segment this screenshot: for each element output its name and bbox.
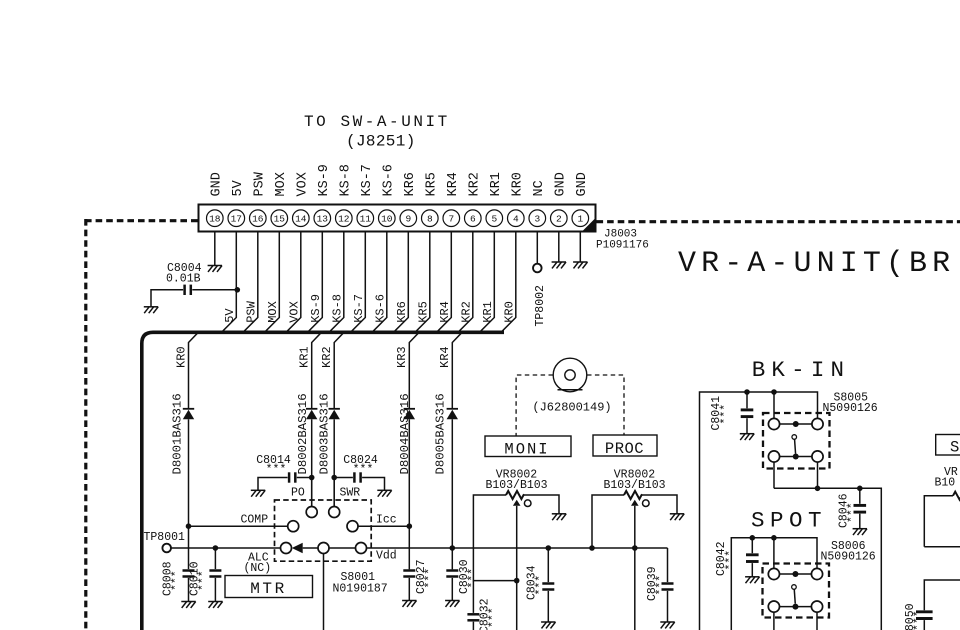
svg-text:KR0: KR0 bbox=[511, 172, 526, 196]
svg-text:14: 14 bbox=[295, 214, 307, 225]
pot wiper arrow bbox=[631, 500, 639, 506]
pin 11 (KS-7) bbox=[357, 210, 374, 227]
wire pin3 NC to TP8002 bbox=[536, 232, 538, 264]
svg-text:KR0: KR0 bbox=[174, 346, 188, 368]
wire S8005 bottom-left down bbox=[773, 462, 775, 488]
pin 6 (KR2) bbox=[465, 210, 482, 227]
ground (pin 2) bbox=[552, 262, 566, 268]
svg-text:16: 16 bbox=[252, 214, 264, 225]
pin 3 (NC) bbox=[529, 210, 546, 227]
node COMP/KR0/C8008 bbox=[186, 523, 192, 529]
wire BK-IN bottom rail bbox=[774, 488, 881, 630]
pot adjust circle bbox=[524, 500, 531, 507]
J8003 ref label bbox=[596, 229, 649, 252]
S8001 pin ALC bbox=[281, 543, 292, 554]
wire pin 9 (KR6) to bus bbox=[394, 232, 409, 333]
svg-text:COMP: COMP bbox=[241, 514, 269, 527]
svg-text:15: 15 bbox=[274, 214, 286, 225]
node Vdd/KR4/C8030 bbox=[450, 545, 456, 551]
svg-text:***: *** bbox=[424, 568, 437, 589]
svg-text:***: *** bbox=[913, 610, 926, 630]
S8005 ref label bbox=[823, 392, 878, 416]
svg-text:KS-7: KS-7 bbox=[352, 294, 366, 323]
svg-text:8: 8 bbox=[427, 214, 433, 225]
wire COMP line bbox=[189, 525, 288, 527]
wire SPOT feed bbox=[731, 538, 817, 630]
wire S8006 bottom-left down bbox=[773, 612, 775, 630]
test point TP8002 bbox=[533, 264, 547, 327]
svg-text:NC: NC bbox=[532, 180, 547, 196]
capacitor C8004 0.01B bbox=[151, 262, 237, 307]
VR8002 value labels bbox=[603, 469, 665, 493]
node C8034 bbox=[546, 545, 552, 551]
svg-text:KS-8: KS-8 bbox=[339, 164, 354, 196]
svg-text:7: 7 bbox=[448, 214, 454, 225]
pin 17 (5V) bbox=[228, 210, 245, 227]
svg-text:B103/B103: B103/B103 bbox=[485, 479, 547, 492]
svg-text:KR6: KR6 bbox=[403, 172, 418, 196]
rotary switch S8001 dashed outline bbox=[275, 500, 372, 561]
S8006 bottom-right contact bbox=[811, 601, 822, 612]
pin 9 (KR6) bbox=[400, 210, 417, 227]
ground (C8042) bbox=[745, 577, 759, 583]
svg-text:***: *** bbox=[266, 464, 287, 477]
svg-text:5: 5 bbox=[491, 214, 497, 225]
svg-text:(J62800149): (J62800149) bbox=[532, 401, 611, 415]
wire bus to KR0 drop bbox=[189, 333, 198, 409]
svg-text:KS-6: KS-6 bbox=[382, 164, 397, 196]
S8005 bottom node bbox=[793, 454, 799, 460]
wire bus to KR4 drop bbox=[452, 333, 461, 409]
wire common to Vdd pin bbox=[329, 547, 356, 549]
wire pin 8 (KR5) to bus bbox=[415, 232, 430, 333]
svg-text:KS-8: KS-8 bbox=[330, 294, 344, 323]
svg-text:KR4: KR4 bbox=[438, 301, 452, 323]
test point TP8001 bbox=[144, 531, 186, 552]
svg-text:KR5: KR5 bbox=[416, 301, 430, 323]
svg-text:MONI: MONI bbox=[504, 441, 549, 459]
svg-text:GND: GND bbox=[575, 172, 590, 196]
svg-text:9: 9 bbox=[405, 214, 411, 225]
svg-text:KR0: KR0 bbox=[502, 301, 516, 323]
wire pin 12 (KS-8) to bus bbox=[329, 232, 344, 333]
S8006 top node bbox=[792, 571, 798, 577]
wire KR1 diode to PO bbox=[311, 419, 313, 506]
ground (C8010) bbox=[208, 602, 222, 608]
svg-text:***: *** bbox=[720, 404, 733, 425]
ground (C8041) bbox=[740, 434, 754, 440]
pin 4 (KR0) bbox=[508, 210, 525, 227]
svg-text:TP8002: TP8002 bbox=[534, 285, 547, 327]
S8006 top bar bbox=[780, 573, 812, 575]
wire bus to KR1 drop bbox=[312, 333, 321, 409]
ground (C8039) bbox=[660, 622, 674, 628]
svg-text:Vdd: Vdd bbox=[376, 550, 397, 563]
node KR1/C8014 bbox=[309, 475, 315, 481]
capacitor C8050 (partial) bbox=[904, 580, 960, 630]
wire pin 15 (MOX) to bus bbox=[265, 232, 280, 333]
svg-text:GND: GND bbox=[554, 172, 569, 196]
svg-text:D8005BAS316: D8005BAS316 bbox=[434, 393, 448, 474]
svg-text:***: *** bbox=[655, 575, 668, 596]
svg-text:S: S bbox=[950, 439, 959, 457]
ground (C8027) bbox=[402, 601, 416, 607]
svg-text:GND: GND bbox=[210, 172, 225, 196]
svg-text:D8001BAS316: D8001BAS316 bbox=[171, 393, 185, 474]
S8005 bottom-right contact bbox=[812, 451, 823, 462]
wire pin 16 (PSW) to bus bbox=[243, 232, 258, 333]
svg-text:***: *** bbox=[487, 607, 500, 628]
wire Icc line bbox=[358, 525, 409, 527]
svg-text:***: *** bbox=[847, 502, 860, 523]
svg-text:***: *** bbox=[725, 550, 738, 571]
svg-text:D8002BAS316: D8002BAS316 bbox=[296, 393, 310, 474]
capacitor C8039 bbox=[646, 548, 674, 622]
dashed link jack to PROC bbox=[587, 375, 624, 435]
svg-text:VR-A-UNIT(BR: VR-A-UNIT(BR bbox=[678, 247, 955, 281]
bus (thick wire bundle) bbox=[142, 332, 504, 630]
potentiometer VR8002 (634.5) zigzag bbox=[624, 491, 642, 499]
node S8006 top-left pin bbox=[771, 535, 777, 541]
wire KR2 to SWR stem bbox=[333, 478, 335, 507]
svg-text:TO SW-A-UNIT: TO SW-A-UNIT bbox=[304, 113, 450, 131]
capacitor C8032 bbox=[467, 581, 500, 630]
diode D8001 BAS316 bbox=[171, 393, 195, 474]
ground (C8014) bbox=[251, 490, 265, 496]
svg-text:B103/B103: B103/B103 bbox=[603, 479, 665, 492]
wire pin 14 (VOX) to bus bbox=[286, 232, 301, 333]
ground (C8034) bbox=[541, 622, 555, 628]
svg-text:2: 2 bbox=[556, 214, 562, 225]
svg-text:N5090126: N5090126 bbox=[821, 551, 876, 564]
svg-text:KS-6: KS-6 bbox=[373, 294, 387, 323]
svg-text:PSW: PSW bbox=[253, 171, 268, 196]
pin 12 (KS-8) bbox=[336, 210, 353, 227]
pin 10 (KS-6) bbox=[379, 210, 396, 227]
ground (C8008) bbox=[181, 602, 195, 608]
svg-text:10: 10 bbox=[381, 214, 393, 225]
capacitor C8030 bbox=[446, 559, 480, 600]
node pot2 left bbox=[589, 545, 595, 551]
S8006 lever bbox=[792, 585, 797, 604]
S8006 top-left contact bbox=[768, 568, 779, 579]
wire common drop to bottom bbox=[323, 554, 325, 630]
S8006 bottom bar bbox=[780, 606, 812, 608]
node C8010 bbox=[213, 545, 219, 551]
capacitor C8034 bbox=[526, 548, 555, 622]
wire pin 10 (KS-6) to bus bbox=[372, 232, 387, 333]
svg-text:18: 18 bbox=[209, 214, 221, 225]
svg-text:TP8001: TP8001 bbox=[144, 531, 186, 544]
wire pin2 to ground bbox=[558, 232, 560, 263]
ground (pin 18) bbox=[208, 266, 222, 272]
svg-text:KR4: KR4 bbox=[438, 346, 452, 368]
node C8042 bbox=[750, 535, 756, 541]
node C8046 bbox=[857, 486, 863, 492]
svg-text:KR3: KR3 bbox=[395, 346, 409, 368]
node Icc/KR3/C8027 bbox=[407, 523, 413, 529]
wire to S8005 top-left bbox=[773, 392, 775, 418]
svg-text:4: 4 bbox=[513, 214, 519, 225]
svg-text:KR1: KR1 bbox=[481, 301, 495, 323]
svg-text:***: *** bbox=[353, 464, 374, 477]
wire S8005 bottom-right down bbox=[817, 462, 819, 488]
svg-text:5V: 5V bbox=[231, 179, 246, 196]
pin 2 (GND) bbox=[551, 210, 568, 227]
capacitor C8046 bbox=[838, 488, 867, 528]
svg-text:KR4: KR4 bbox=[446, 172, 461, 196]
svg-text:KR2: KR2 bbox=[468, 172, 483, 196]
svg-text:(J8251): (J8251) bbox=[346, 133, 416, 151]
capacitor C8024 bbox=[334, 454, 384, 490]
dashed unit border left horizontal bbox=[85, 219, 198, 222]
pot right wire to ground bbox=[524, 495, 559, 514]
pin 5 (KR1) bbox=[486, 210, 503, 227]
wire to S8006 top-left bbox=[773, 538, 775, 569]
capacitor C8010 bbox=[188, 548, 221, 602]
pot right wire to ground bbox=[642, 495, 677, 514]
svg-text:PO: PO bbox=[291, 487, 305, 500]
diode D8002 BAS316 bbox=[296, 393, 317, 474]
S8001 ref label bbox=[333, 571, 388, 596]
S8001 common pin bbox=[318, 543, 329, 554]
S8001 pin COMP bbox=[288, 521, 299, 532]
svg-text:12: 12 bbox=[338, 214, 350, 225]
diode D8004 BAS316 bbox=[398, 393, 415, 474]
S8006 ref label bbox=[821, 540, 876, 564]
capacitor C8014 bbox=[256, 454, 311, 490]
node S8005 bottom-right/rail bbox=[815, 486, 821, 492]
svg-text:BK-IN: BK-IN bbox=[752, 357, 851, 383]
potentiometer VR8002 (516.5) zigzag bbox=[506, 491, 524, 499]
S8006 bottom-left contact bbox=[768, 601, 779, 612]
svg-text:N0190187: N0190187 bbox=[333, 583, 388, 596]
svg-text:5V: 5V bbox=[223, 308, 237, 323]
diode D8005 BAS316 bbox=[434, 393, 459, 474]
MONI label box bbox=[485, 436, 571, 459]
svg-text:(NC): (NC) bbox=[244, 562, 272, 575]
pin 16 (PSW) bbox=[249, 210, 266, 227]
ground (C8046) bbox=[853, 529, 867, 535]
svg-text:Icc: Icc bbox=[376, 514, 397, 527]
wire BK-IN feed bbox=[700, 392, 818, 630]
node C8041 bbox=[744, 389, 750, 395]
wire pin 4 (KR0) to bus bbox=[501, 232, 516, 333]
svg-text:KS-9: KS-9 bbox=[309, 294, 323, 323]
ground (C8030) bbox=[445, 601, 459, 607]
connector J8003 box bbox=[199, 205, 596, 232]
wire pin 5 (KR1) to bus bbox=[480, 232, 495, 333]
right pot bottom rail bbox=[924, 546, 960, 548]
svg-text:KR5: KR5 bbox=[425, 172, 440, 196]
svg-text:PROC: PROC bbox=[605, 440, 644, 458]
wire KR4 diode to Vdd node bbox=[451, 419, 453, 569]
S8005 top-left contact bbox=[768, 418, 779, 429]
svg-text:3: 3 bbox=[534, 214, 540, 225]
svg-text:P1091176: P1091176 bbox=[596, 240, 649, 252]
wire KR3 diode to Icc node bbox=[408, 419, 410, 569]
pin 18 (GND) bbox=[207, 210, 224, 227]
node 5V junction bbox=[235, 287, 241, 293]
capacitor C8042 bbox=[715, 538, 759, 577]
dashed unit border left vertical bbox=[84, 219, 87, 630]
svg-text:***: *** bbox=[197, 570, 210, 591]
right pot partial wires bbox=[924, 496, 953, 547]
pin 7 (KR4) bbox=[443, 210, 460, 227]
S8005 top-right contact bbox=[812, 418, 823, 429]
svg-text:KR1: KR1 bbox=[489, 172, 504, 196]
wire MONI pot left leg bbox=[473, 495, 506, 548]
right pot zigzag partial bbox=[953, 492, 960, 500]
S8005 top bar bbox=[780, 423, 812, 425]
diode D8003 BAS316 bbox=[318, 393, 340, 474]
svg-text:1: 1 bbox=[577, 214, 583, 225]
capacitor C8041 bbox=[710, 392, 753, 434]
ground (pin 1) bbox=[573, 262, 587, 268]
node wiper/C8032 bbox=[514, 578, 520, 584]
wire pin1 to ground bbox=[579, 232, 581, 263]
svg-text:KS-7: KS-7 bbox=[360, 164, 375, 196]
dashed unit border right horizontal bbox=[597, 220, 960, 223]
wire arrow to common bbox=[303, 547, 318, 549]
wire TP8001 to ALC bbox=[171, 547, 281, 549]
wire KR2 diode to SWR bbox=[333, 419, 335, 506]
wire bus to KR2 drop bbox=[334, 333, 343, 409]
wire Vdd rail bbox=[367, 547, 668, 549]
S8006 bottom node bbox=[792, 604, 798, 610]
svg-text:11: 11 bbox=[360, 214, 372, 225]
pin 14 (VOX) bbox=[293, 210, 310, 227]
wire pin 13 (KS-9) to bus bbox=[308, 232, 323, 333]
svg-text:MTR: MTR bbox=[250, 580, 287, 598]
jack J62800149 bbox=[532, 358, 611, 414]
switch S8006 dashed outline bbox=[763, 564, 830, 618]
S8001 wiper arrow bbox=[292, 543, 303, 553]
dashed link jack to MONI bbox=[516, 375, 553, 436]
wire KR1 to PO stem bbox=[311, 478, 313, 507]
svg-text:13: 13 bbox=[317, 214, 329, 225]
svg-text:VOX: VOX bbox=[287, 301, 301, 323]
svg-text:SPOT: SPOT bbox=[751, 508, 827, 534]
svg-text:KR2: KR2 bbox=[459, 301, 473, 323]
svg-text:KS-9: KS-9 bbox=[317, 164, 332, 196]
capacitor C8027 bbox=[403, 559, 437, 600]
pin 13 (KS-9) bbox=[314, 210, 331, 227]
connector corner notch bbox=[582, 218, 596, 232]
pot wiper arrow bbox=[513, 500, 521, 506]
pin 8 (KR5) bbox=[422, 210, 439, 227]
wire pin 11 (KS-7) to bus bbox=[351, 232, 366, 333]
wire C8032 branch bbox=[473, 548, 516, 581]
svg-text:6: 6 bbox=[470, 214, 476, 225]
S8001 pin Vdd bbox=[356, 543, 367, 554]
S8006 top-right contact bbox=[811, 568, 822, 579]
ground (C8024) bbox=[377, 490, 391, 496]
svg-text:KR6: KR6 bbox=[395, 301, 409, 323]
node KR2/C8024 bbox=[331, 475, 337, 481]
pot adjust circle bbox=[643, 500, 650, 507]
wire KR0 diode to COMP node bbox=[188, 419, 190, 526]
S8005 lever bbox=[792, 435, 797, 454]
capacitor C8008 bbox=[162, 526, 195, 601]
right VR labels (partial) bbox=[935, 466, 958, 490]
S8005 top node bbox=[793, 421, 799, 427]
ground (C8004) bbox=[144, 307, 158, 313]
svg-text:KR1: KR1 bbox=[298, 346, 312, 368]
VR8002 value labels bbox=[485, 469, 547, 493]
svg-text:MOX: MOX bbox=[266, 301, 280, 323]
wire S8006 bottom-right down bbox=[816, 612, 818, 630]
right partial title box bbox=[936, 435, 960, 457]
svg-text:0.01B: 0.01B bbox=[166, 273, 201, 286]
svg-text:17: 17 bbox=[231, 214, 242, 225]
svg-text:N5090126: N5090126 bbox=[823, 402, 878, 415]
node PROC wiper junction bbox=[632, 545, 638, 551]
S8005 bottom-left contact bbox=[768, 451, 779, 462]
wire pin 7 (KR4) to bus bbox=[437, 232, 452, 333]
pin 15 (MOX) bbox=[271, 210, 288, 227]
svg-text:***: *** bbox=[535, 575, 548, 596]
svg-text:***: *** bbox=[171, 570, 184, 591]
S8001 pin PO bbox=[306, 507, 317, 518]
switch S8005 dashed outline bbox=[763, 413, 830, 469]
svg-text:MOX: MOX bbox=[274, 172, 289, 196]
svg-text:D8003BAS316: D8003BAS316 bbox=[318, 393, 332, 474]
node S8005 top-left pin bbox=[771, 389, 777, 395]
pin 1 (GND) bbox=[572, 210, 589, 227]
svg-text:B10: B10 bbox=[935, 477, 956, 490]
wire pin 6 (KR2) to bus bbox=[458, 232, 473, 333]
MTR label box bbox=[225, 576, 313, 599]
S8001 pin SWR bbox=[329, 507, 340, 518]
wire bus to KR3 drop bbox=[409, 333, 418, 409]
svg-text:VOX: VOX bbox=[296, 172, 311, 196]
svg-text:KR2: KR2 bbox=[320, 346, 334, 368]
svg-text:PSW: PSW bbox=[244, 300, 258, 322]
S8005 bottom bar bbox=[780, 456, 812, 458]
wire PROC pot left leg bbox=[592, 495, 624, 548]
wire pin18 to ground bbox=[214, 232, 216, 266]
wire pin 17 (5V) to bus bbox=[222, 232, 237, 333]
svg-text:SWR: SWR bbox=[340, 487, 361, 500]
S8001 pin Icc bbox=[347, 521, 358, 532]
PROC label box bbox=[593, 435, 657, 458]
